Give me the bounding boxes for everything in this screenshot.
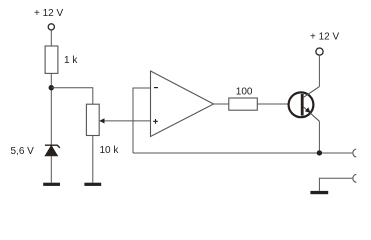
resistor R2 xyxy=(229,98,257,110)
wire collector rail xyxy=(318,55,320,87)
output connector top xyxy=(353,149,356,157)
node junction dot xyxy=(49,85,54,90)
op-amp U1 xyxy=(151,71,214,137)
potentiometer P1 xyxy=(86,104,99,135)
terminal +12V right xyxy=(316,48,323,55)
wire terminal to R1 xyxy=(50,30,52,46)
wire emitter rail xyxy=(318,121,320,153)
svg-text:100: 100 xyxy=(236,86,253,97)
wire wiper to op-amp + xyxy=(104,120,151,122)
wire pot to ground xyxy=(92,136,94,183)
svg-text:+ 12 V: + 12 V xyxy=(310,32,340,43)
wire output node line xyxy=(133,152,352,154)
zener diode D1 cathode bar xyxy=(45,145,60,148)
wiper arrow xyxy=(99,118,104,123)
transistor Q1 emitter line xyxy=(304,107,320,121)
op-amp plus sign xyxy=(153,119,158,124)
transistor Q1 base bar xyxy=(301,94,304,116)
wire lower output xyxy=(319,178,352,191)
resistor R1 xyxy=(45,46,58,73)
svg-text:10 k: 10 k xyxy=(100,145,120,156)
ground right xyxy=(310,191,328,194)
ground pot xyxy=(84,183,101,186)
terminal +12V left xyxy=(48,24,54,30)
svg-text:1 k: 1 k xyxy=(64,55,78,66)
output connector bottom xyxy=(353,174,356,182)
wire R1 to zener xyxy=(50,73,52,145)
wire R2 to base xyxy=(257,103,288,105)
wire zener to ground xyxy=(50,156,52,183)
transistor Q1 collector line xyxy=(304,87,320,98)
zener diode D1 triangle xyxy=(45,145,58,156)
transistor Q1 emitter arrow xyxy=(305,107,311,113)
wire op-amp output xyxy=(214,103,229,105)
feedback wire minus input xyxy=(133,88,151,153)
op-amp minus sign xyxy=(154,87,158,89)
svg-text:5,6 V: 5,6 V xyxy=(11,146,35,157)
svg-text:+ 12 V: + 12 V xyxy=(34,8,64,19)
ground left xyxy=(43,183,60,186)
wire node to pot top xyxy=(51,88,93,105)
transistor Q1 circle xyxy=(289,92,314,117)
node output dot xyxy=(317,150,322,155)
